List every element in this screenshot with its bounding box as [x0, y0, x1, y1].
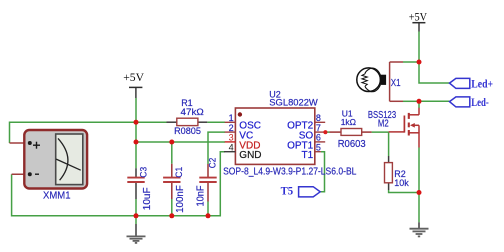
junction rail / C2 [206, 213, 211, 218]
svg-text:SGL8022W: SGL8022W [269, 97, 318, 107]
svg-text:+5V: +5V [409, 12, 428, 24]
wire U2 pin5 to T5 [224, 151, 226, 153]
svg-text:R0805: R0805 [174, 126, 201, 136]
wire source to R2 node and ground [418, 148, 420, 223]
wire R2 bottom to source node [389, 190, 419, 193]
lamp X1 [357, 62, 403, 101]
wire lamp bottom lead green part [403, 100, 419, 102]
wire R1 right lead to U2 pin1 [207, 121, 225, 123]
svg-text:3: 3 [229, 133, 234, 143]
svg-text:6: 6 [316, 133, 321, 143]
svg-text:10k: 10k [394, 178, 409, 188]
U2 pin 7 SO [315, 131, 325, 133]
U2 pin 1 OSC [225, 121, 236, 123]
capacitor C1 100nF [163, 164, 186, 213]
svg-text:T1: T1 [302, 150, 314, 161]
junction +5V / lamp / Led+ [417, 60, 422, 65]
svg-text:2: 2 [229, 123, 234, 133]
wire VDD bus to U2 pin3 [136, 141, 225, 143]
wire C3 column [135, 122, 137, 168]
svg-text:Led+: Led+ [471, 79, 493, 91]
svg-text:C1: C1 [174, 167, 185, 178]
svg-text:R0603: R0603 [338, 139, 366, 150]
wire Led+ branch [419, 62, 450, 83]
svg-text:5: 5 [316, 143, 321, 153]
power +5V symbol right [409, 12, 428, 32]
junction rail / C3 / ground [134, 213, 139, 218]
MOSFET M2 BSS123 [368, 108, 419, 148]
svg-text:Led-: Led- [471, 97, 489, 109]
wire U2 pin7 to U1 [327, 131, 330, 133]
svg-text:1: 1 [229, 113, 234, 123]
resistor R1 47k [167, 98, 208, 136]
resistor U1 1k [330, 108, 372, 149]
junction rail / C1 [169, 213, 174, 218]
svg-text:GND: GND [239, 150, 261, 161]
U2 pin 4 GND [224, 151, 235, 153]
U2 pin 2 VC [225, 131, 236, 133]
svg-text:C3: C3 [138, 167, 149, 178]
junction R2 / source / ground [417, 190, 422, 195]
wire R2 top [388, 132, 390, 156]
connector T5 [281, 186, 321, 198]
svg-text:1kΩ: 1kΩ [341, 117, 356, 127]
svg-text:47kΩ: 47kΩ [181, 107, 205, 117]
svg-text:8: 8 [316, 113, 321, 123]
multimeter XMM1 [10, 130, 88, 202]
svg-text:10nF: 10nF [196, 186, 207, 207]
ground symbol bottom middle [127, 216, 146, 243]
wire drain drop [418, 101, 420, 108]
capacitor C3 10uF [127, 167, 153, 210]
wire C1 column [171, 142, 173, 164]
svg-text:C2: C2 [208, 158, 219, 169]
svg-text:SOP-8_L4.9-W3.9-P1.27-LS6.0-BL: SOP-8_L4.9-W3.9-P1.27-LS6.0-BL [223, 166, 357, 177]
wire ground rail [12, 152, 225, 216]
U2 pin 5 T1 [315, 151, 321, 153]
resistor R2 10k [385, 156, 410, 190]
svg-text:M2: M2 [378, 119, 389, 130]
wire +5V right drop [418, 32, 420, 63]
wire +5V left drop [135, 98, 137, 122]
svg-text:4: 4 [229, 143, 234, 153]
svg-text:100nF: 100nF [175, 185, 186, 213]
connector Led+ [450, 78, 494, 90]
svg-text:X1: X1 [391, 78, 401, 89]
svg-text:+5V: +5V [123, 70, 144, 84]
svg-text:XMM1: XMM1 [43, 190, 71, 202]
power +5V symbol left [123, 70, 144, 98]
wire Led- branch [419, 100, 450, 102]
ground symbol bottom right [410, 222, 429, 236]
junction U2 pin7 / U1 [323, 130, 327, 134]
capacitor C2 10nF [196, 158, 219, 207]
junction VDD bus / C3 column [134, 140, 139, 145]
IC U2 SGL8022W [223, 89, 357, 177]
wire VC net: U2 pin2 to C2 [208, 132, 225, 164]
svg-text:10uF: 10uF [142, 187, 153, 210]
connector Led- [450, 97, 489, 109]
U2 pin 3 VDD [225, 141, 236, 143]
wire lamp top lead green part [403, 61, 419, 63]
U2 pin 8 OPT2 [315, 121, 325, 123]
wire U1 to M2 gate / R2 [372, 131, 389, 133]
junction lamp / Led- / drain [417, 99, 422, 104]
svg-text:7: 7 [316, 123, 321, 133]
U2 pin 6 OPT1 [315, 141, 325, 143]
junction VDD bus / C1 [169, 140, 174, 145]
svg-text:T5: T5 [281, 186, 294, 198]
junction +5V bus / C3 [134, 120, 139, 125]
wire main +5V bus left frame to R1 [10, 122, 167, 143]
